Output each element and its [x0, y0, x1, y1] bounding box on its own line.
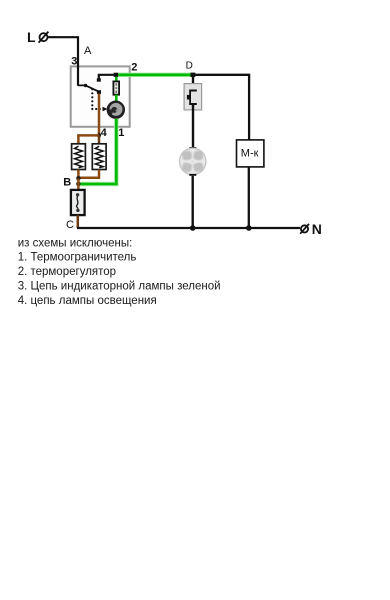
svg-text:2. терморегулятор: 2. терморегулятор — [18, 266, 116, 278]
brown wire branch to heater R1 — [78, 135, 99, 143]
actuator dotted link — [91, 88, 101, 110]
junction dot above heaters — [97, 133, 101, 137]
wire upper contact to node 2 — [99, 75, 114, 79]
fan bottom terminal bar — [189, 174, 196, 176]
node B junction dots — [76, 176, 80, 180]
wire M-k to N line — [248, 167, 250, 228]
switch upper terminal — [97, 78, 101, 81]
heater resistor R2 — [92, 144, 106, 170]
switch C contacts and wavy element — [76, 193, 80, 212]
green wire element to knob — [115, 95, 118, 102]
wire fan to N line — [191, 176, 193, 228]
svg-text:C: C — [66, 219, 74, 231]
svg-text:М-к: М-к — [241, 147, 259, 159]
green wire node2 down to capillary element — [115, 77, 118, 82]
junction dot fan/N — [190, 225, 196, 231]
green wire node2 to node D — [118, 73, 191, 77]
heater resistor R1 — [72, 144, 86, 170]
brown wire R1 to node B — [77, 170, 80, 179]
brown wire pin4 down — [98, 94, 101, 136]
thermal protector switch box (below D) — [184, 84, 202, 110]
node 2 junction square — [114, 73, 119, 77]
junction dot M-k/N — [246, 225, 252, 231]
svg-text:A: A — [84, 45, 92, 57]
actuator arrow head — [103, 107, 108, 112]
svg-text:N: N — [312, 221, 322, 237]
switch blade (common pin 3) — [78, 85, 99, 91]
thermal switch bottom contact bar — [189, 103, 197, 105]
svg-text:4: 4 — [101, 127, 108, 139]
black wire D to right branch — [195, 75, 249, 140]
svg-text:L: L — [27, 29, 36, 45]
svg-text:2: 2 — [131, 62, 137, 74]
brown wire branch to heater R2 — [98, 135, 101, 143]
svg-text:1. Термоограничитель: 1. Термоограничитель — [18, 252, 137, 264]
terminal L symbol — [39, 32, 49, 43]
brown wire node B to defrost switch C — [77, 178, 80, 190]
thermal switch top contact bar — [189, 90, 197, 92]
wire D down into thermal switch — [192, 77, 194, 91]
compressor motor box M-k — [237, 140, 264, 167]
svg-text:1: 1 — [118, 127, 124, 139]
thermostat box A — [71, 66, 130, 126]
terminal N symbol — [300, 224, 309, 234]
brown wire C to N line — [77, 215, 80, 228]
svg-text:3: 3 — [71, 56, 77, 68]
fan motor symbol — [180, 148, 206, 174]
brown wire R2 to node B — [78, 170, 99, 178]
svg-text:из схемы исключены:: из схемы исключены: — [18, 237, 133, 249]
thermostat knob (cam) — [107, 101, 125, 119]
defrost switch C box — [71, 190, 85, 215]
svg-text:3. Цепь индикаторной лампы зел: 3. Цепь индикаторной лампы зеленой — [18, 281, 221, 293]
legend text — [18, 237, 221, 307]
thermal switch actuator tab — [187, 95, 190, 100]
N bus wire — [77, 227, 300, 229]
wire L to box A — [48, 37, 78, 86]
svg-text:D: D — [186, 60, 193, 71]
green wire knob down to node B — [79, 119, 116, 184]
capillary element (bellows) — [113, 81, 119, 94]
thermal switch blade — [189, 92, 191, 104]
fan top terminal bar — [189, 147, 196, 149]
switch lower terminal — [97, 90, 101, 94]
svg-text:B: B — [63, 177, 71, 189]
switch pivot dot — [84, 84, 87, 87]
node D junction square — [191, 73, 196, 77]
svg-text:4. цепь лампы освещения: 4. цепь лампы освещения — [18, 295, 157, 307]
wire thermal switch to fan — [192, 104, 194, 148]
